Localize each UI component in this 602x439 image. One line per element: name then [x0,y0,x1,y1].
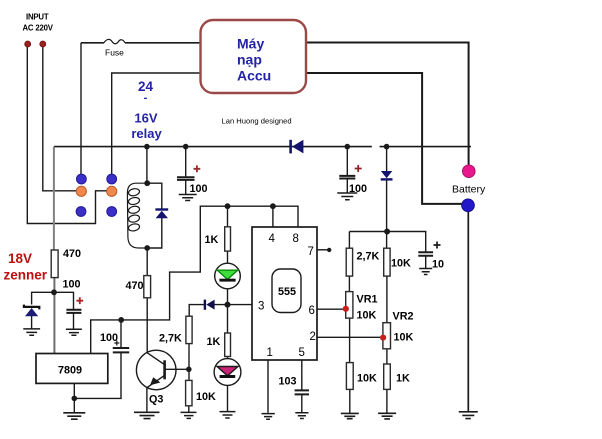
resistor R-10Ka base [186,380,192,405]
ground base 10K [181,412,197,418]
svg-text:6: 6 [309,305,315,317]
potentiometer VR1 10K [346,292,353,319]
charger box U-charger (May nap Accu) [201,20,307,93]
resistor R-470a [51,250,58,278]
svg-text:10: 10 [432,259,444,271]
svg-text:7: 7 [308,246,314,258]
ground pin 1 [262,414,275,420]
wire input terminal 2 to relay contact [43,47,77,191]
IC U1 555 [252,227,317,360]
ground cap mid [337,193,357,200]
svg-text:10K: 10K [391,258,411,270]
svg-text:VR2: VR2 [393,311,414,323]
junction dot pin3 led [225,302,231,308]
resistor R-27Kb [346,248,352,276]
pin3 diode D4 [204,300,215,310]
wire fuse line to charger box [81,42,201,44]
wire 1K to green led [227,251,229,263]
wire charger box lower-left to relay contact [112,73,201,175]
wire charger box output + to battery [306,43,469,165]
svg-text:1K: 1K [396,373,410,385]
svg-text:103: 103 [279,376,297,388]
svg-text:relay: relay [131,126,162,141]
regulator U2 7809 [36,354,108,384]
wire main bus [54,146,471,148]
junction dot rail cap100 [118,317,124,323]
bus diode D2 [289,140,303,154]
svg-text:470: 470 [126,280,144,292]
wire input terminal 1 to relay contact [27,47,106,224]
wire bus to relay coil [146,147,148,184]
relay coil L1 [127,183,147,248]
fuse F1 [104,39,125,43]
wire 10K to ground [188,406,190,413]
junction dot 1K top [225,203,231,209]
wire cap 100 relay to ground [185,181,187,195]
green LED LED1 [215,263,241,289]
svg-text:Máy: Máy [237,36,264,52]
junction dot zener node [51,289,57,295]
ground cap 10 [419,269,432,275]
svg-text:3: 3 [258,300,264,312]
capacitor C-100 mid [339,176,355,179]
wire pin 1 to ground [267,360,269,413]
wire green led to pin3 node [227,289,229,305]
svg-text:INPUT: INPUT [26,13,49,22]
plus mark cap left [76,297,83,304]
wire pin 7 stub [317,249,328,251]
relay contact orange dot B1 [76,186,86,196]
zener diode ZD 18V [24,305,39,317]
wire bus to cap 100 mid [346,147,348,176]
ground VR1 chain [341,413,359,418]
junction dot bus cap relay [183,144,189,150]
svg-text:Battery: Battery [452,184,486,196]
svg-text:100: 100 [100,332,118,344]
wire 1K c to ground [386,389,388,413]
transistor Q3 [136,350,176,390]
wire charger box output - to battery [306,73,462,204]
capacitor C-100 left [66,310,81,313]
wire Q3 emitter to ground [146,388,148,413]
wire diode to 2,7K [189,305,205,317]
ground battery [459,412,478,419]
wire pin3 node to 1K b [227,305,229,333]
ground VR2 chain [378,413,396,419]
magenta LED LED2 [214,359,241,386]
ground Q3 [134,412,160,418]
svg-text:2,7K: 2,7K [357,251,380,263]
red wiper dot VR2 [380,335,386,341]
svg-text:1: 1 [267,347,273,359]
wire right rail to 2,7K b [348,232,350,249]
svg-text:100: 100 [63,279,81,291]
wire 2,7K to 10K base divider [188,344,190,381]
wire zener to ground [31,316,33,329]
potentiometer VR2 10K [383,323,391,349]
capacitor C-100 regulator [113,348,129,352]
ground 7809 [63,413,85,419]
svg-text:zenner: zenner [4,268,48,283]
svg-text:7809: 7809 [58,365,82,377]
relay contact blue dot A2 [107,174,117,184]
svg-text:1K: 1K [205,234,219,246]
svg-text:nạp: nạp [237,52,262,68]
label 24 - 16V relay [131,79,162,141]
wire cap 10 to ground [425,256,427,268]
plus mark cap relay [194,165,201,172]
input terminal dot 1 [25,41,31,47]
wire zener branch [32,292,55,304]
svg-text:-: - [144,92,148,104]
relay contact blue dot A1 [77,174,87,184]
wire 10K c to ground [349,389,351,413]
svg-text:555: 555 [278,286,296,298]
svg-text:4: 4 [269,233,276,245]
svg-text:AC 220V: AC 220V [23,24,54,33]
terminal dot pin7 [327,248,331,252]
ground cap 103 [295,413,308,419]
junction dot coil top [144,180,150,186]
resistor R-27Ka base [186,316,192,343]
wire magenta led to ground [227,385,229,411]
svg-text:10K: 10K [394,332,414,344]
junction dot bus coil [144,144,150,150]
wire 1K b to magenta led [227,357,229,359]
wire pin 6 to VR1 [317,308,346,310]
svg-text:Lan Huong designed: Lan Huong designed [222,117,292,126]
battery terminal plus (magenta) [463,165,476,178]
wire resistor 470b to Q3 collector [146,298,148,353]
svg-text:2,7K: 2,7K [159,333,182,345]
svg-text:10K: 10K [357,373,377,385]
wire flyback diode bottom to coil bottom [147,218,162,248]
svg-text:5: 5 [299,347,305,359]
svg-text:10K: 10K [357,310,377,322]
wire coil top to flyback diode [147,183,162,209]
wire bus to battery diode [386,147,388,171]
wire bus to cap 100 relay [185,147,187,177]
wire pin 4 riser [272,206,274,227]
svg-text:Q3: Q3 [149,394,163,406]
junction dot pins 4 8 [270,203,276,209]
ground magenta led [220,412,236,418]
resistor R-1Kb [225,333,231,357]
wire VR1 to 10K c [349,318,351,363]
junction dot 7809 ground [72,396,78,402]
svg-text:470: 470 [63,248,81,260]
svg-text:100: 100 [349,183,367,195]
wire cap branch left [55,292,74,309]
resistor R-10Kb [384,248,390,276]
wire bus corner down to resistor 470 (gray) [53,147,55,250]
wire 7809 gnd stem [73,383,75,412]
svg-text:2: 2 [310,331,316,343]
battery diode D3 [381,171,393,181]
wire battery minus down to ground [467,212,469,412]
wire right rail [349,232,425,253]
wire Q3 base [165,368,189,370]
wire pin 5 to cap 103 [301,360,303,390]
relay contact blue dot C1 [76,207,86,217]
wire cap 100 up to rail [120,320,122,347]
svg-text:18V: 18V [8,251,32,266]
resistor R-10Kc [346,363,353,390]
flyback diode D1 across coil [155,208,168,218]
svg-text:10K: 10K [196,391,216,403]
wire pin 3 of 555 to diode [214,304,252,306]
relay contact orange dot B2 [107,186,117,196]
capacitor C-100 relay [177,177,195,180]
capacitor C-10 [418,252,433,255]
battery terminal minus (blue) [462,199,475,212]
junction dot coil bottom [144,245,150,251]
ground cap left [66,329,82,335]
wire resistor 470 to 7809 input [53,278,55,354]
wire battery diode to right rail [386,180,388,248]
ground zener [23,329,40,335]
wire 10K mid to VR2 [386,276,388,323]
svg-text:1K: 1K [207,336,221,348]
relay contact blue dot C2 [107,207,117,217]
capacitor C-103 [295,390,309,394]
wire cap 100 mid to ground [346,179,348,192]
junction dot bus cap mid [345,144,351,150]
label 18V zenner [4,251,48,283]
svg-text:VR1: VR1 [357,294,378,306]
input terminal dot 2 [40,41,46,47]
svg-text:16V: 16V [134,111,157,126]
wire 7809 output rail to 555 pins 4 8 [91,206,298,353]
plus mark cap regulator [114,341,119,346]
wire fuse corner down to relay contact [80,43,82,175]
wire 7809 gnd to cap 100 [74,353,121,399]
plus mark cap 10 [434,242,441,249]
ground cap relay [179,195,197,201]
wire cap to ground left [73,313,75,329]
resistor R-1Kc [384,364,391,389]
wire 2,7K b to VR1 [348,276,350,292]
wire cap 103 to ground [301,394,303,412]
wire VR2 to 1K c [386,349,388,364]
wire coil bottom to resistor 470b [146,248,148,276]
junction dot Q3 base [186,367,192,373]
junction dot right rail [384,229,390,235]
svg-text:100: 100 [190,183,208,195]
junction dot bus diode [384,144,390,150]
resistor R-1Ka [225,227,231,251]
plus mark cap mid [355,165,362,172]
wire 1K top to rail [227,206,229,227]
wire pin 2 to VR2 [317,336,383,338]
label INPUT AC 220V [23,13,54,33]
resistor R-470b [144,276,151,298]
svg-text:Accu: Accu [237,68,271,84]
red wiper dot VR1 [343,306,349,312]
svg-text:8: 8 [293,233,299,245]
svg-text:Fuse: Fuse [105,48,124,58]
